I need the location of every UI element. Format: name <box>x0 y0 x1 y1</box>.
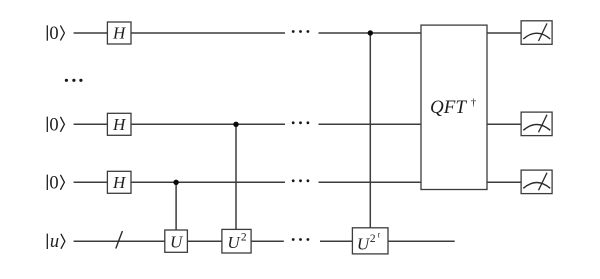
wire ellipsis qu <box>292 238 309 241</box>
svg-text:H: H <box>112 173 127 192</box>
wire ellipsis q1 <box>292 121 309 124</box>
measurement meter q2 <box>521 170 552 194</box>
wire q1 segment left <box>74 123 285 125</box>
svg-text:u: u <box>50 232 59 252</box>
gate U^2^t on qu <box>352 228 388 254</box>
bus slash on qu <box>116 231 123 249</box>
svg-text:H: H <box>112 24 127 43</box>
control wire from q2 to U <box>175 182 177 230</box>
svg-text:U: U <box>357 235 371 254</box>
measurement meter q0 <box>521 21 552 45</box>
ket |u> label qu <box>47 232 65 252</box>
control dot q2 <box>173 180 178 185</box>
svg-text:U: U <box>227 233 241 252</box>
control dot q1 <box>233 122 238 127</box>
svg-text:2: 2 <box>241 232 247 244</box>
svg-text:H: H <box>112 115 127 134</box>
wire q2 segment middle <box>319 181 422 183</box>
svg-text:0: 0 <box>49 24 58 44</box>
wire qu segment right <box>388 240 455 242</box>
svg-text:0: 0 <box>49 115 58 135</box>
H gate q0 <box>107 22 131 44</box>
H gate q2 <box>107 171 131 193</box>
wire q0 segment middle <box>319 32 422 34</box>
gate U on qu <box>165 230 188 252</box>
ket |0> label q0 <box>47 24 64 44</box>
wire qu segment left <box>74 240 284 242</box>
control wire from q0 to U^2^t <box>369 33 371 229</box>
gate U^2 on qu <box>222 229 251 253</box>
H gate q1 <box>107 113 131 135</box>
wire ellipsis q0 <box>292 30 309 33</box>
measurement meter q1 <box>521 112 552 136</box>
ket |0> label q2 <box>47 173 64 193</box>
wire q1 segment right <box>487 123 521 125</box>
svg-text:2: 2 <box>370 233 376 245</box>
wire q0 segment left <box>74 32 285 34</box>
vertical ellipsis between q0 and q1 <box>65 79 83 82</box>
wire ellipsis q2 <box>292 179 309 182</box>
QFT-dagger box <box>421 25 487 189</box>
control dot q0 <box>368 30 373 35</box>
wire q1 segment middle <box>319 123 422 125</box>
wire q0 segment right <box>487 32 521 34</box>
wire q2 segment left <box>74 181 285 183</box>
control wire from q1 to U^2 <box>235 124 237 230</box>
svg-text:U: U <box>170 232 184 251</box>
svg-text:†: † <box>471 97 477 109</box>
svg-text:0: 0 <box>49 173 58 193</box>
wire qu segment middle <box>320 240 352 242</box>
ket |0> label q1 <box>47 115 64 135</box>
svg-text:QFT: QFT <box>430 97 467 118</box>
wire q2 segment right <box>487 181 521 183</box>
